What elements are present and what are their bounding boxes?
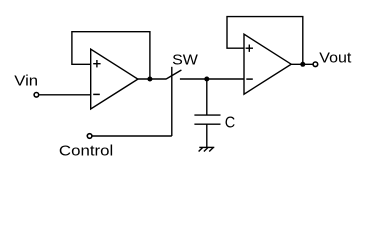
svg-text:Control: Control (59, 144, 113, 160)
svg-text:C: C (225, 114, 236, 132)
svg-text:Vin: Vin (14, 73, 38, 89)
svg-text:Vout: Vout (319, 50, 352, 66)
svg-text:SW: SW (172, 52, 198, 68)
